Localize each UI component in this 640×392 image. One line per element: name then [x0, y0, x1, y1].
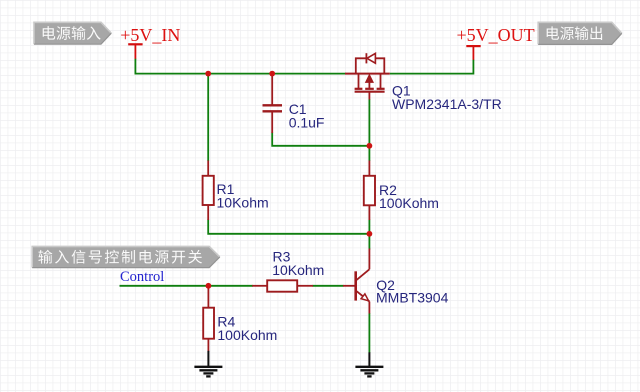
wire R3 to Q2 base — [313, 285, 344, 287]
junction node A (gate/C1/R2) — [367, 143, 373, 149]
junction node rail/C1 — [269, 71, 275, 77]
net flag +5V_IN — [120, 25, 180, 59]
transistor Q2 (NPN) — [343, 249, 369, 314]
annotation label 电源输出 — [538, 22, 622, 44]
ground (under R4) — [194, 351, 222, 377]
svg-text:100Kohm: 100Kohm — [217, 327, 277, 343]
svg-text:MMBT3904: MMBT3904 — [376, 290, 449, 306]
wire +5V_IN flag to main rail — [135, 59, 345, 74]
annotation label 电源输入 — [34, 22, 111, 44]
svg-text:100Kohm: 100Kohm — [379, 195, 439, 211]
svg-text:0.1uF: 0.1uF — [289, 114, 325, 130]
resistor R2 — [364, 161, 375, 221]
junction node Control/R4 — [206, 283, 212, 289]
wire R1 bottom to node B — [208, 220, 369, 234]
svg-text:10Kohm: 10Kohm — [217, 195, 269, 211]
resistor R1 — [203, 161, 214, 221]
junction node rail/R1 — [205, 71, 211, 77]
wire Q2 emitter to ground — [368, 313, 370, 353]
wire R2 bottom to node B — [368, 220, 370, 234]
annotation label 输入信号控制电源开关 — [32, 246, 220, 267]
svg-text:10Kohm: 10Kohm — [272, 262, 324, 278]
wire C1 bottom to Q1 gate node — [272, 133, 369, 146]
ground (under Q2 emitter) — [355, 352, 383, 376]
svg-text:+5V_IN: +5V_IN — [120, 25, 180, 45]
transistor Q1 (P-MOSFET) — [345, 53, 390, 99]
wire rail to R1 — [207, 75, 209, 162]
net flag +5V_OUT — [457, 25, 535, 60]
svg-text:+5V_OUT: +5V_OUT — [457, 25, 535, 45]
wire Q1 gate down to node A — [368, 99, 370, 146]
wire Q1 drain to +5V_OUT flag — [390, 60, 474, 74]
capacitor C1 — [263, 75, 283, 133]
svg-text:WPM2341A-3/TR: WPM2341A-3/TR — [392, 96, 502, 112]
resistor R3 — [252, 280, 313, 291]
wire node B to Q2 collector — [368, 234, 370, 250]
resistor R4 — [203, 287, 214, 352]
svg-text:Control: Control — [120, 269, 164, 285]
junction node B (R1/R2/collector) — [367, 231, 373, 237]
wire node A to R2 — [368, 146, 370, 161]
wire Control to R3 — [120, 285, 253, 287]
